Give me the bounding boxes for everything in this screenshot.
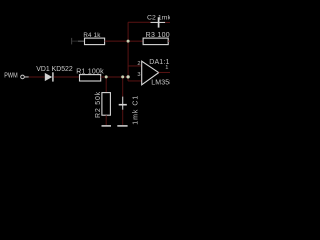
wire tick to R4 [72, 40, 78, 42]
svg-text:3: 3 [137, 72, 140, 78]
terminal bar C1 [117, 125, 127, 127]
wire pin2 [128, 65, 142, 67]
wire C1 bottom [122, 110, 124, 125]
svg-text:R2 50k: R2 50k [95, 91, 102, 118]
wire node to C1 [122, 77, 124, 97]
wire R2 bottom [105, 115, 107, 125]
wire R3 right [168, 40, 170, 42]
wire PWM to diode [29, 76, 45, 78]
wire node B vertical [127, 22, 129, 81]
wire R1 to opamp node [101, 76, 128, 78]
svg-text:1: 1 [165, 65, 168, 71]
wire node B to R3 [128, 40, 143, 42]
wire PWM stub [24, 76, 28, 78]
junction node B [127, 40, 130, 43]
wire pin3 [128, 80, 142, 82]
svg-text:VD1 KD522: VD1 KD522 [36, 66, 73, 73]
resistor R2 [102, 93, 111, 116]
junction node R2 [105, 75, 108, 78]
resistor R3 [143, 38, 168, 45]
wire output pin1 [159, 71, 170, 73]
wire diode to R1 [54, 76, 80, 78]
svg-text:2: 2 [137, 61, 140, 67]
diode VD1 [45, 72, 53, 81]
wire C2 right [165, 21, 170, 23]
capacitor C1 [119, 97, 127, 110]
wire R4 to node B [105, 40, 129, 42]
svg-text:1mk C1: 1mk C1 [133, 95, 140, 125]
terminal tick R4 left [71, 38, 73, 45]
wire node to R2 [105, 77, 107, 93]
junction node pin3 [126, 75, 129, 78]
wire node B top to C2 [128, 21, 150, 23]
terminal PWM [21, 75, 25, 79]
terminal bar R2 [102, 125, 112, 127]
resistor R1 [80, 75, 101, 81]
capacitor C2 [151, 17, 166, 27]
resistor R4 [85, 38, 105, 45]
op-amp DA1:1 [142, 61, 159, 85]
junction node C1 [121, 75, 124, 78]
svg-text:PWM: PWM [4, 72, 17, 80]
svg-text:LM358: LM358 [151, 80, 170, 87]
